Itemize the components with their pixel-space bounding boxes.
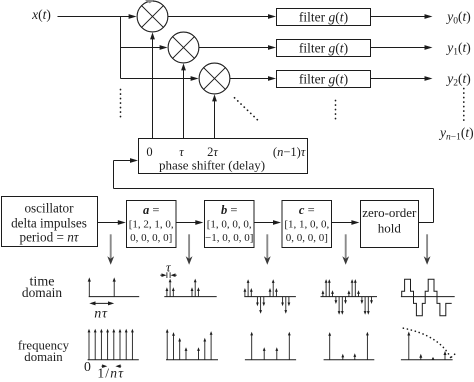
multiplier M3 (circle with X) — [199, 63, 230, 94]
svg-text:phase shifter (delay): phase shifter (delay) — [159, 158, 265, 173]
wire: filter 3 output — [371, 78, 425, 80]
freq plot 4: impulses — [328, 332, 369, 360]
wire: multiplier 1 to filter 1 — [168, 16, 269, 18]
multiplier M2 (circle with X) — [168, 32, 199, 63]
svg-text:[1, 1, 0, 0,: [1, 1, 0, 0, — [284, 219, 329, 231]
svg-text:0, 0, 0, 0]: 0, 0, 0, 0] — [286, 232, 328, 244]
time plot 2: axis — [164, 296, 216, 298]
wire: branch to multiplier 2 — [121, 47, 161, 49]
gray clipped arrowhead above multiplier M1 — [145, 0, 155, 3]
svg-text:0: 0 — [84, 359, 91, 374]
coefficient box c — [282, 201, 332, 248]
freq plot 5: dotted sinc envelope — [403, 328, 450, 357]
wire: multiplier 3 to filter 3 — [230, 78, 269, 80]
svg-text:hold: hold — [378, 221, 402, 236]
svg-text:a =: a = — [143, 203, 159, 217]
time plot 1: n-tau measurement arrow — [89, 301, 114, 305]
svg-text:y1(t): y1(t) — [445, 40, 471, 58]
svg-text:b =: b = — [221, 203, 237, 217]
svg-text:0, 0, 0, 0]: 0, 0, 0, 0] — [130, 232, 172, 244]
freq plot 2: shaped impulse comb — [166, 329, 213, 360]
dotted ellipsis below branch column — [120, 90, 122, 118]
time plot 4: alternating 1-2-2-1 impulse groups — [322, 279, 373, 315]
time plot 2: tau measurement arrows — [160, 273, 176, 277]
svg-text:c =: c = — [299, 203, 315, 217]
wire: phase shifter tap tau to M2 — [183, 70, 185, 139]
time plot 1: axis — [89, 296, 140, 298]
freq plot 3: axis — [245, 359, 296, 361]
wire: branch to multiplier 3 — [121, 78, 192, 80]
wire: filter 2 output — [371, 47, 425, 49]
svg-text:filter g(t): filter g(t) — [299, 41, 348, 56]
svg-text:zero-order: zero-order — [362, 205, 417, 220]
svg-text:yn−1(t): yn−1(t) — [438, 125, 474, 143]
svg-text:[1, 0, 0, 0,: [1, 0, 0, 0, — [207, 219, 252, 231]
time plot 1: impulses — [88, 277, 116, 296]
dotted ellipsis below filter column — [335, 101, 337, 123]
svg-text:filter g(t): filter g(t) — [299, 10, 348, 25]
wire: b to c — [254, 222, 275, 224]
svg-text:domain: domain — [22, 285, 62, 300]
wire: a to b — [176, 222, 197, 224]
wire: phase shifter tap 2tau to M3 — [214, 101, 216, 139]
dotted ellipsis diagonal after multiplier 3 — [235, 98, 259, 121]
gray arrow down at x=427.1 — [426, 234, 428, 258]
wire: filter 1 output — [371, 16, 425, 18]
svg-text:nτ: nτ — [94, 306, 108, 321]
freq plot 2: axis — [166, 359, 218, 361]
time plot 2: tau ticks — [166, 272, 168, 278]
svg-text:domain: domain — [24, 350, 63, 364]
wire: feedback from zero-order hold to phase shifter — [419, 222, 434, 224]
filter box 3: filter g(t) — [277, 71, 371, 88]
svg-text:y2(t): y2(t) — [445, 71, 471, 89]
svg-text:y0(t): y0(t) — [445, 9, 471, 27]
freq plot 1: 1/n-tau measurement arrows — [102, 364, 122, 368]
gray arrow down at x=345.7 — [345, 234, 347, 258]
multiplier M1 (circle with X) — [137, 1, 168, 32]
wire: c to zero-order hold — [332, 222, 353, 224]
svg-text:x(t): x(t) — [31, 7, 51, 22]
svg-text:delta impulses: delta impulses — [11, 216, 87, 231]
svg-text:−1, 0, 0, 0]: −1, 0, 0, 0] — [205, 232, 253, 244]
phase shifter (delay) box — [139, 139, 308, 174]
wire: multiplier 2 to filter 2 — [199, 47, 269, 49]
wire: phase shifter tap 0 to M1 — [152, 39, 154, 139]
gray arrow down at x=189.1 — [188, 234, 190, 258]
dotted ellipsis below y outputs — [463, 89, 465, 121]
freq plot 5: impulses — [407, 332, 446, 360]
svg-text:τ: τ — [166, 260, 172, 275]
svg-text:(n−1)τ: (n−1)τ — [273, 145, 306, 159]
coefficient box a — [127, 201, 177, 248]
time plot 4: axis — [321, 296, 378, 298]
oscillator box — [2, 197, 98, 247]
gray arrow down at x=110.7 — [110, 234, 112, 258]
freq plot 3: impulses — [250, 332, 290, 360]
gray arrow down at x=267.3 — [266, 234, 268, 258]
wire: branch vertical — [120, 17, 122, 79]
svg-text:0: 0 — [146, 145, 152, 159]
svg-text:[1, 2, 1, 0,: [1, 2, 1, 0, — [129, 219, 174, 231]
time plot 3: axis — [244, 296, 296, 298]
svg-text:filter g(t): filter g(t) — [299, 72, 348, 87]
time plot 5: zero-order-hold staircase waveform — [402, 279, 452, 316]
time plot 2: impulse groups 1-2-1 — [166, 279, 200, 297]
filter box 1: filter g(t) — [277, 9, 371, 26]
svg-text:oscillator: oscillator — [24, 200, 74, 215]
wire: input from x(t) to multiplier 1 — [58, 16, 130, 18]
coefficient box b — [205, 201, 255, 248]
filter box 2: filter g(t) — [277, 40, 371, 57]
zero-order hold box — [361, 201, 419, 248]
time plot 3: alternating impulse groups — [244, 279, 291, 314]
freq plot 4: axis — [324, 359, 375, 361]
freq plot 1: axis — [88, 359, 139, 361]
svg-text:period = nτ: period = nτ — [19, 230, 79, 245]
freq plot 1: impulse comb — [88, 329, 134, 360]
freq plot 5: axis — [401, 359, 453, 361]
svg-text:1/nτ: 1/nτ — [97, 366, 124, 381]
time plot 5: axis — [401, 296, 455, 298]
wire: oscillator to a — [98, 222, 120, 224]
